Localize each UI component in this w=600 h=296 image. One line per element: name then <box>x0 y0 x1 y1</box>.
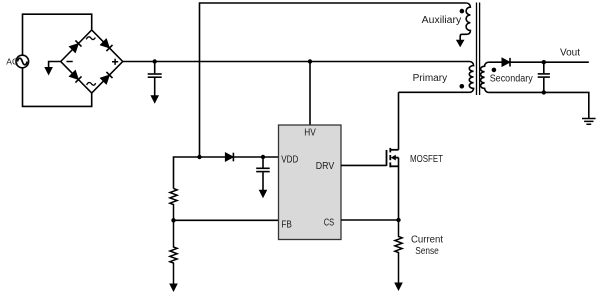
node VDD cap junction <box>261 155 265 159</box>
svg-text:Sense: Sense <box>415 246 439 257</box>
diode D1 upper-left <box>69 40 81 52</box>
primary phase dot <box>460 84 465 89</box>
auxiliary phase dot <box>460 9 465 14</box>
node bulk cap junction <box>153 59 157 63</box>
arrow current sense return <box>394 283 403 292</box>
node VDD divider junction <box>197 155 201 159</box>
MOSFET body arrow <box>391 155 396 161</box>
wire auxiliary to VDD rail (top) <box>200 3 467 157</box>
diode D4 lower-right <box>100 72 112 84</box>
node HV tap junction <box>308 59 312 63</box>
wire AC loop top <box>23 14 92 55</box>
resistor R3 current sense <box>395 220 402 283</box>
resistor R2 lower feedback <box>170 220 177 284</box>
capacitor output <box>538 62 550 92</box>
svg-text:Current: Current <box>411 234 443 245</box>
diode D6 output rectifier <box>502 58 510 67</box>
wire DRV to gate <box>341 164 387 166</box>
bridge rectifier diamond <box>61 30 123 93</box>
transformer T1 auxiliary winding <box>460 3 470 40</box>
wire CS row <box>341 219 399 221</box>
svg-text:Vout: Vout <box>560 47 580 58</box>
svg-text:Secondary: Secondary <box>490 74 533 85</box>
svg-text:Auxiliary: Auxiliary <box>422 15 462 26</box>
node CS junction <box>396 218 400 222</box>
transformer T1 secondary winding <box>481 62 489 92</box>
secondary phase dot <box>492 68 497 73</box>
wire DC rail <box>123 61 470 63</box>
resistor R1 upper feedback <box>170 189 177 221</box>
node FB junction <box>171 218 175 222</box>
node Vout cap top junction <box>542 60 546 64</box>
wire MOSFET source <box>398 158 400 220</box>
diode D5 VDD <box>225 153 233 162</box>
arrow feedback divider return <box>169 284 178 293</box>
capacitor VDD <box>256 157 270 190</box>
node Vout cap bottom junction <box>542 90 546 94</box>
svg-text:AC: AC <box>6 56 18 66</box>
bridge plus mark <box>112 59 118 65</box>
arrow bulk cap return <box>150 95 159 104</box>
wire FB row <box>174 219 279 221</box>
arrow negative return <box>44 67 53 76</box>
arrow auxiliary return <box>456 40 465 47</box>
svg-text:HV: HV <box>304 128 316 139</box>
wire MOSFET drain <box>398 92 400 150</box>
wire secondary bottom <box>489 92 589 118</box>
wire HV branch <box>309 62 311 126</box>
wire AC loop bottom <box>23 68 92 107</box>
svg-text:MOSFET: MOSFET <box>410 154 443 165</box>
svg-text:CS: CS <box>324 218 335 229</box>
ground secondary <box>582 119 596 125</box>
diode D2 upper-right <box>100 39 112 51</box>
bridge minus mark <box>67 61 73 63</box>
transistor Q1 MOSFET <box>387 148 399 167</box>
transformer T1 primary winding <box>469 62 473 93</box>
transformer T1 core <box>477 3 480 96</box>
wire bridge negative return <box>49 62 61 68</box>
wire primary bottom to drain <box>399 91 470 93</box>
bridge AC tilde bottom <box>87 83 96 86</box>
bridge AC tilde top <box>86 37 95 40</box>
svg-text:VDD: VDD <box>281 155 298 166</box>
capacitor bulk input <box>148 62 162 96</box>
svg-text:Primary: Primary <box>413 73 448 84</box>
svg-text:DRV: DRV <box>316 161 335 172</box>
svg-text:FB: FB <box>281 219 292 230</box>
arrow VDD cap return <box>259 190 268 199</box>
IC controller U1 <box>279 125 342 240</box>
wire secondary top / Vout rail <box>489 61 589 63</box>
wire VDD row <box>174 157 279 189</box>
AC source V1 <box>16 55 29 68</box>
diode D3 lower-left <box>69 70 81 82</box>
